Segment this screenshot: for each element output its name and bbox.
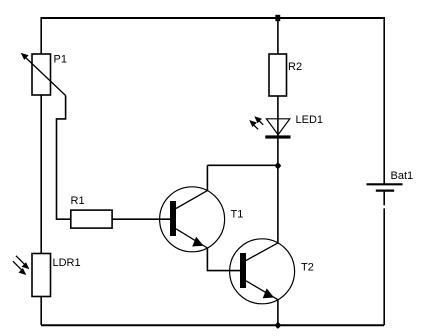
wire right rail to battery: [383, 17, 385, 184]
svg-text:P1: P1: [54, 53, 67, 65]
resistor R1: [71, 195, 113, 228]
wire LED1 to node: [277, 139, 279, 166]
node mid junction: [275, 162, 282, 169]
svg-text:Bat1: Bat1: [391, 170, 414, 182]
wire left rail: [40, 17, 42, 54]
wire top rail: [41, 17, 384, 19]
potentiometer P1: [21, 53, 67, 96]
wire P1 bottom to LDR1: [40, 95, 42, 254]
node bottom junction: [275, 322, 282, 329]
svg-text:T2: T2: [301, 262, 314, 274]
wire T2 emitter to bottom rail: [277, 300, 279, 325]
wire R2 to LED1: [277, 96, 279, 138]
node top junction: [275, 15, 280, 21]
LED LED1: [249, 114, 323, 139]
LDR LDR1: [13, 254, 81, 297]
svg-text:LDR1: LDR1: [53, 257, 81, 269]
wire bottom rail: [41, 324, 384, 326]
wire P1 wiper to R1: [57, 96, 71, 220]
svg-text:R2: R2: [288, 61, 302, 73]
wire LDR1 to bottom rail: [40, 297, 42, 326]
wire T1 emitter to T2 base: [207, 248, 240, 271]
wire node to T2 collector: [277, 165, 279, 243]
transistor T2: [230, 239, 314, 304]
battery Bat1: [367, 170, 414, 191]
svg-text:R1: R1: [71, 195, 85, 207]
wire R2 top: [277, 18, 279, 54]
svg-text:T1: T1: [231, 208, 244, 220]
wire T1 collector up: [206, 165, 208, 190]
wire battery bottom (with gap): [383, 191, 385, 325]
wire T1 collector to node: [207, 164, 278, 166]
transistor T1: [160, 187, 244, 252]
wire R1 to T1 base: [112, 218, 170, 220]
resistor R2: [269, 54, 302, 96]
svg-text:LED1: LED1: [296, 114, 324, 126]
